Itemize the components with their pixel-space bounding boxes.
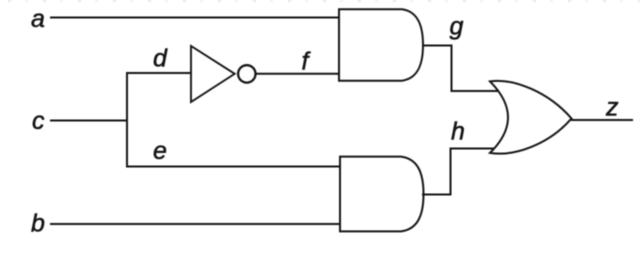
OR gate U4 xyxy=(490,81,572,154)
wire h (AND2 output to OR input) xyxy=(422,149,495,195)
wire c xyxy=(50,120,127,122)
faint dotted screen edge top xyxy=(8,0,640,2)
wire f xyxy=(256,73,339,75)
AND gate U2 (bottom) xyxy=(340,157,424,232)
svg-text:f: f xyxy=(302,48,312,76)
wire d xyxy=(126,72,191,74)
svg-text:a: a xyxy=(31,5,45,33)
wire branch vertical (node c split) xyxy=(126,73,128,167)
inverter U3 bubble xyxy=(238,65,255,82)
svg-text:g: g xyxy=(450,13,464,41)
inverter U3 triangle xyxy=(191,46,235,102)
svg-text:b: b xyxy=(31,210,45,238)
wire g (AND1 output to OR input) xyxy=(423,46,498,92)
wire b xyxy=(50,223,340,225)
wire e xyxy=(126,166,340,168)
AND gate U1 (top) xyxy=(339,9,423,80)
svg-text:d: d xyxy=(153,45,168,73)
wire z (OR output) xyxy=(571,119,633,121)
svg-text:z: z xyxy=(605,94,619,122)
svg-text:c: c xyxy=(32,107,45,135)
svg-text:h: h xyxy=(451,118,465,146)
wire a xyxy=(50,17,339,19)
svg-text:e: e xyxy=(153,137,167,165)
